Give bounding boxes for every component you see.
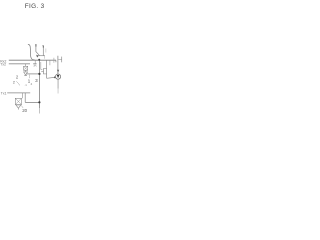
esd cell 2 stub — [21, 93, 23, 98]
capacitor right plate — [61, 57, 63, 63]
capacitor link dash — [58, 58, 62, 60]
mosfet M3 drain bar — [44, 68, 47, 70]
wire Tx1 horizontal y92.9 — [7, 92, 30, 94]
mosfet M1 bar1 — [33, 63, 36, 65]
mosfet M3 source bar — [44, 73, 47, 75]
arrowhead into current source — [54, 76, 56, 78]
transistor Q3 collector stroke — [42, 46, 45, 56]
transistor base bar — [37, 55, 45, 57]
transistor Q1 collector stroke — [28, 45, 35, 60]
esd cell 1 diode triangle — [24, 72, 28, 75]
svg-text:3: 3 — [35, 78, 38, 83]
junction dot bottom — [38, 101, 40, 103]
wire long vertical node 3 — [38, 60, 40, 108]
wire vertical fade tail — [38, 108, 40, 114]
wire mid horizontal y73.9 — [26, 73, 39, 75]
tick below net1 b — [53, 58, 55, 63]
svg-text:FIG. 3: FIG. 3 — [25, 3, 45, 10]
junction dot mid — [38, 73, 40, 75]
esd cell 1 stub top — [25, 64, 27, 66]
faint tick right of Q3 — [45, 49, 47, 53]
esd cell 2 diode triangle — [16, 105, 21, 108]
transistor Q3 top tick — [42, 45, 44, 47]
mosfet M3 gate bar — [43, 68, 45, 74]
current source lower wire — [57, 79, 59, 88]
mosfet M3 gate stub — [41, 70, 43, 72]
numeral 2 lower leader — [16, 81, 20, 85]
capacitor left plate / wire top — [57, 56, 59, 74]
wire net1 horizontal y60 — [9, 59, 56, 61]
wire vertical x46.6 — [46, 60, 48, 78]
esd cell 1 pad X — [24, 66, 28, 70]
esd cell 2 tick — [17, 108, 19, 109]
wire to current source — [47, 76, 55, 79]
junction dot top — [38, 59, 40, 61]
wire Tx1 vertical elbow — [24, 93, 26, 103]
mosfet M1 gate stub — [34, 60, 36, 63]
esd cell 1 stub mid — [25, 70, 27, 72]
transistor Q2 stroke — [36, 44, 40, 56]
svg-text:Tx1: Tx1 — [1, 92, 7, 96]
svg-text:Tx2: Tx2 — [0, 63, 6, 67]
mosfet M1 tail — [34, 65, 37, 67]
wire net1 end tick — [55, 60, 57, 62]
svg-text:20: 20 — [22, 108, 27, 113]
esd cell 2 pad X — [15, 98, 21, 104]
numeral 20 leader — [21, 105, 23, 108]
mosfet M2 aux line — [41, 62, 43, 69]
transistor Q1 emitter arrow — [36, 55, 39, 58]
current source inner arrow — [57, 75, 60, 78]
wire net2 horizontal y63.8 — [9, 63, 30, 65]
transistor Q2 top tick — [35, 44, 37, 47]
current source arrow upper — [57, 70, 59, 73]
numeral 1 leader — [28, 75, 31, 79]
current source lower wire fade — [57, 89, 59, 94]
esd cell 1 pad box — [24, 66, 28, 70]
esd cell 2 pad box — [15, 98, 21, 104]
esd cell 1 diode bar — [24, 74, 27, 76]
wire bottom horizontal y102.4 — [25, 101, 39, 103]
transistor Q3 emitter stub — [43, 56, 45, 59]
mosfet M1 bar2 — [33, 64, 36, 66]
current source I1 circle — [55, 74, 60, 79]
tick below net1 a — [49, 60, 51, 65]
